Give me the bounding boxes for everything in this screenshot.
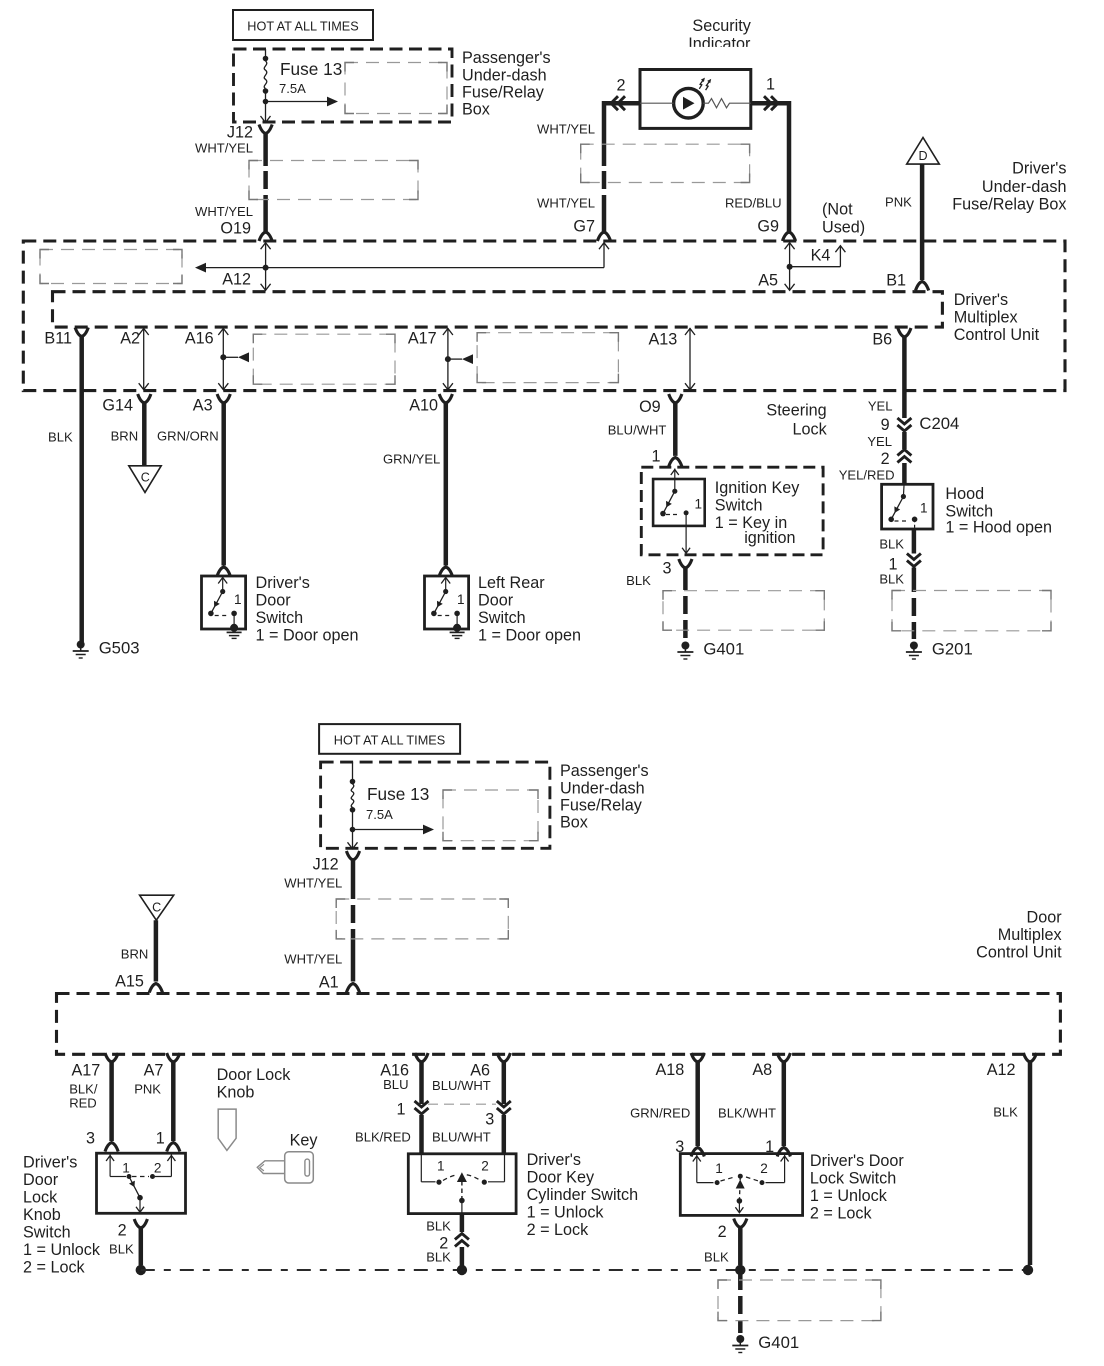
wire BLK/RED to cylinder switch xyxy=(419,1115,424,1155)
svg-text:Control Unit: Control Unit xyxy=(976,944,1062,962)
svg-text:1: 1 xyxy=(457,592,465,607)
svg-text:A10: A10 xyxy=(409,397,438,415)
svg-text:2: 2 xyxy=(118,1222,127,1240)
svg-text:Door Key: Door Key xyxy=(527,1169,595,1187)
svg-text:Under-dash: Under-dash xyxy=(462,67,547,85)
svg-text:Hood: Hood xyxy=(945,485,984,503)
lock switch blade xyxy=(738,1176,741,1201)
indicator LED circle xyxy=(674,88,704,118)
svg-text:Door: Door xyxy=(1027,909,1063,927)
wire PNK A7 to knob switch pin1 xyxy=(171,1062,176,1141)
svg-text:BLK: BLK xyxy=(626,573,651,588)
svg-text:1: 1 xyxy=(715,1161,723,1176)
arrow from fuse to relay (top) xyxy=(266,101,330,103)
svg-text:B6: B6 xyxy=(872,331,892,349)
connector C204 chevrons xyxy=(897,418,911,424)
svg-text:O9: O9 xyxy=(639,398,661,416)
connector C triangle (bottom section) xyxy=(140,895,174,920)
Driver's Under-dash Fuse/Relay Box (outer dashed) xyxy=(23,241,1065,391)
svg-text:A12: A12 xyxy=(222,271,251,289)
svg-text:YEL/RED: YEL/RED xyxy=(839,468,895,483)
svg-text:A2: A2 xyxy=(120,330,140,348)
svg-text:BLU/WHT: BLU/WHT xyxy=(432,1078,491,1093)
svg-text:2: 2 xyxy=(718,1223,727,1241)
svg-text:Control Unit: Control Unit xyxy=(954,326,1040,344)
svg-text:9: 9 xyxy=(881,416,890,434)
svg-text:1: 1 xyxy=(437,1159,445,1174)
svg-text:RED: RED xyxy=(69,1096,97,1111)
svg-text:G401: G401 xyxy=(758,1333,799,1352)
svg-text:BLK/: BLK/ xyxy=(69,1082,98,1097)
Door Multiplex Control Unit box (dashed) xyxy=(57,994,1061,1055)
wire drop below G7 xyxy=(603,243,605,268)
ignition key switch box xyxy=(653,479,705,526)
cylinder switch blade arrow up xyxy=(457,1172,467,1182)
svg-text:A15: A15 xyxy=(115,973,144,991)
svg-text:Box: Box xyxy=(462,101,490,119)
svg-text:A1: A1 xyxy=(319,974,339,992)
svg-text:A16: A16 xyxy=(185,330,214,348)
svg-text:BLK: BLK xyxy=(426,1219,451,1234)
svg-text:Ignition Key: Ignition Key xyxy=(715,479,800,497)
svg-text:Fuse/Relay Box: Fuse/Relay Box xyxy=(952,196,1066,214)
svg-text:BLK/RED: BLK/RED xyxy=(355,1130,411,1145)
svg-text:BLK: BLK xyxy=(879,572,904,587)
wire GRN/RED A18 to lock switch pin3 xyxy=(695,1062,700,1146)
svg-text:1: 1 xyxy=(766,76,775,94)
svg-text:BLK: BLK xyxy=(48,430,73,445)
svg-text:Switch: Switch xyxy=(23,1224,71,1242)
node A12 vertical arrow xyxy=(265,243,267,290)
svg-text:BLK/WHT: BLK/WHT xyxy=(718,1106,776,1121)
svg-text:1: 1 xyxy=(920,501,928,516)
wire BRN C to A15 xyxy=(154,920,159,981)
fuse F13 7.5A (top) xyxy=(265,49,267,59)
ground G503 xyxy=(77,641,85,649)
svg-text:BLK: BLK xyxy=(426,1250,451,1265)
svg-text:Under-dash: Under-dash xyxy=(560,780,645,798)
svg-text:BLK: BLK xyxy=(879,537,904,552)
wire BLU A16 xyxy=(419,1062,424,1104)
gray connector box on bottom G401 wire xyxy=(718,1280,881,1321)
wire YEL B6 to C204 xyxy=(902,337,907,418)
svg-text:Knob: Knob xyxy=(23,1206,61,1224)
svg-text:O19: O19 xyxy=(220,220,251,238)
junction dot A12 to ground bus xyxy=(1023,1265,1033,1275)
LED flash arrows xyxy=(699,80,703,89)
wire BLU/WHT O9 to ignition key switch xyxy=(673,403,678,456)
wire BLK/WHT A8 to lock switch pin1 xyxy=(782,1062,787,1146)
svg-text:G9: G9 xyxy=(757,218,779,236)
svg-text:2: 2 xyxy=(154,1161,162,1176)
svg-text:A18: A18 xyxy=(655,1061,684,1079)
svg-text:1: 1 xyxy=(695,497,703,512)
svg-text:A13: A13 xyxy=(648,331,677,349)
driver's door switch xyxy=(202,576,246,629)
svg-text:A17: A17 xyxy=(408,330,437,348)
svg-text:B1: B1 xyxy=(886,272,906,290)
label box HOT AT ALL TIMES (top) xyxy=(233,10,373,40)
wire BRN G14 to C xyxy=(142,403,147,466)
svg-text:BRN: BRN xyxy=(111,429,139,444)
svg-text:Fuse 13: Fuse 13 xyxy=(367,784,429,804)
svg-text:C: C xyxy=(141,471,150,485)
wire BLK junction to G401 (bottom) xyxy=(738,1274,743,1290)
svg-text:1: 1 xyxy=(396,1101,405,1119)
svg-text:Door: Door xyxy=(23,1171,59,1189)
svg-text:G201: G201 xyxy=(932,640,973,659)
gray sub-box 2 in multiplex area xyxy=(477,333,618,383)
label box HOT AT ALL TIMES (bottom) xyxy=(319,724,460,754)
gray dashed link between cylinder connectors xyxy=(428,1103,496,1105)
ground bus horizontal dashed wire xyxy=(141,1269,1028,1271)
svg-text:Left Rear: Left Rear xyxy=(478,574,545,592)
svg-text:K4: K4 xyxy=(811,247,831,265)
arrow from fuse to relay (bottom) xyxy=(353,829,426,831)
wire BLK A12 to ground bus xyxy=(1028,1062,1033,1265)
svg-text:7.5A: 7.5A xyxy=(279,81,306,96)
svg-text:GRN/YEL: GRN/YEL xyxy=(383,452,440,467)
svg-text:2: 2 xyxy=(760,1161,768,1176)
svg-text:J12: J12 xyxy=(227,124,253,142)
door lock knob icon xyxy=(218,1109,236,1150)
svg-text:WHT/YEL: WHT/YEL xyxy=(537,122,595,137)
svg-text:Under-dash: Under-dash xyxy=(982,178,1067,196)
svg-text:2: 2 xyxy=(881,450,890,468)
svg-text:2 = Lock: 2 = Lock xyxy=(810,1205,873,1223)
svg-text:Switch: Switch xyxy=(256,609,304,627)
svg-text:J12: J12 xyxy=(313,856,339,874)
svg-text:HOT AT ALL TIMES: HOT AT ALL TIMES xyxy=(247,20,358,34)
svg-text:WHT/YEL: WHT/YEL xyxy=(537,196,595,211)
wire YEL/RED to hood switch xyxy=(902,463,907,486)
svg-text:Fuse 13: Fuse 13 xyxy=(280,59,342,79)
wire BLK B11 to G503 xyxy=(79,337,84,643)
fuse F13 7.5A (bottom) xyxy=(352,762,354,781)
svg-text:WHT/YEL: WHT/YEL xyxy=(195,204,253,219)
ground G201 xyxy=(910,642,918,650)
svg-text:Cylinder Switch: Cylinder Switch xyxy=(527,1186,639,1204)
svg-text:WHT/YEL: WHT/YEL xyxy=(284,876,342,891)
svg-text:G503: G503 xyxy=(99,639,140,658)
svg-text:BRN: BRN xyxy=(121,947,149,962)
svg-text:1: 1 xyxy=(651,448,660,466)
junction dot cylinder switch to ground bus xyxy=(457,1265,467,1275)
hood switch box xyxy=(882,484,933,529)
svg-text:1: 1 xyxy=(234,592,242,607)
svg-text:RED/BLU: RED/BLU xyxy=(725,196,782,211)
svg-text:Door Lock: Door Lock xyxy=(217,1066,292,1084)
ground G401 (top) xyxy=(681,642,689,650)
driver's door lock knob switch box xyxy=(97,1153,186,1213)
svg-text:G401: G401 xyxy=(703,640,744,659)
security indicator lamp box xyxy=(640,70,751,129)
svg-text:2 = Lock: 2 = Lock xyxy=(23,1259,86,1277)
svg-text:Driver's: Driver's xyxy=(256,574,310,592)
svg-text:Security: Security xyxy=(692,17,751,35)
connector C triangle (top section) xyxy=(129,466,161,493)
svg-text:1 = Door open: 1 = Door open xyxy=(478,627,581,645)
svg-text:C: C xyxy=(152,901,161,915)
svg-text:1 = Hood open: 1 = Hood open xyxy=(945,519,1052,537)
svg-text:Driver's Door: Driver's Door xyxy=(810,1152,905,1170)
svg-text:Driver's: Driver's xyxy=(527,1151,581,1169)
wire WHT/YEL J12 to A1 xyxy=(351,860,356,899)
svg-text:G14: G14 xyxy=(102,397,133,415)
svg-text:1 = Door open: 1 = Door open xyxy=(256,627,359,645)
driver's door key cylinder switch box xyxy=(408,1154,516,1214)
svg-text:Door: Door xyxy=(256,592,292,610)
svg-text:ignition: ignition xyxy=(744,529,795,547)
svg-text:3: 3 xyxy=(662,560,671,578)
svg-text:B11: B11 xyxy=(44,330,72,348)
node K4 branch xyxy=(789,243,791,290)
svg-text:A12: A12 xyxy=(987,1061,1016,1079)
svg-text:Multiplex: Multiplex xyxy=(998,926,1062,944)
wire RED/BLU from indicator pin1 to G9 xyxy=(751,101,791,106)
svg-text:2: 2 xyxy=(481,1159,489,1174)
svg-text:Fuse/Relay: Fuse/Relay xyxy=(560,797,643,815)
svg-text:Switch: Switch xyxy=(478,609,526,627)
svg-text:Passenger's: Passenger's xyxy=(560,762,649,780)
svg-text:Door: Door xyxy=(478,592,514,610)
svg-text:1: 1 xyxy=(122,1161,130,1176)
svg-text:PNK: PNK xyxy=(134,1082,161,1097)
in-line connector gray box on A1 wire xyxy=(336,899,508,939)
svg-text:PNK: PNK xyxy=(885,195,912,210)
relay sub-connector dashed box (bottom fuse box) xyxy=(443,790,538,841)
svg-text:2: 2 xyxy=(616,77,625,95)
svg-text:BLU/WHT: BLU/WHT xyxy=(608,423,667,438)
svg-text:Switch: Switch xyxy=(715,497,763,515)
svg-text:WHT/YEL: WHT/YEL xyxy=(195,141,253,156)
wire GRN/ORN A3 to driver's door switch xyxy=(221,403,226,566)
svg-text:Lock: Lock xyxy=(792,421,827,439)
in-line connector C (gray box) on J12 wire xyxy=(249,161,418,200)
svg-text:YEL: YEL xyxy=(868,399,893,414)
svg-text:1: 1 xyxy=(156,1130,165,1148)
svg-text:A6: A6 xyxy=(470,1062,490,1080)
gray connector box on G201 wire xyxy=(892,591,1051,631)
svg-text:C204: C204 xyxy=(919,414,959,433)
wire BLK/RED A17 to knob switch pin3 xyxy=(109,1062,114,1141)
Passenger's Under-dash Fuse/Relay Box (bottom, dashed) xyxy=(321,762,550,848)
svg-text:BLK: BLK xyxy=(704,1250,729,1265)
svg-text:BLK: BLK xyxy=(993,1105,1018,1120)
svg-text:GRN/RED: GRN/RED xyxy=(630,1106,690,1121)
svg-text:BLK: BLK xyxy=(109,1242,134,1257)
Steering Lock dashed box xyxy=(641,467,823,555)
knob switch blade xyxy=(129,1177,140,1198)
svg-text:BLU/WHT: BLU/WHT xyxy=(432,1130,491,1145)
svg-text:GRN/ORN: GRN/ORN xyxy=(157,429,219,444)
gray sub-box 1 in multiplex area xyxy=(253,334,395,384)
svg-text:Used): Used) xyxy=(822,219,865,237)
junction dot lock switch to ground bus xyxy=(735,1265,745,1275)
wire GRN/YEL A10 to left rear door switch xyxy=(444,403,449,566)
left rear door switch xyxy=(425,576,469,629)
svg-text:2 = Lock: 2 = Lock xyxy=(527,1221,590,1239)
wire from ignition key switch pin3 xyxy=(685,513,687,552)
svg-text:HOT AT ALL TIMES: HOT AT ALL TIMES xyxy=(334,734,445,748)
wire YEL C204 pin2 xyxy=(902,432,907,449)
key icon xyxy=(285,1152,314,1183)
svg-text:Multiplex: Multiplex xyxy=(954,309,1018,327)
Driver's Multiplex Control Unit box (dashed) xyxy=(53,292,943,327)
svg-text:Steering: Steering xyxy=(766,402,826,420)
svg-text:Fuse/Relay: Fuse/Relay xyxy=(462,84,545,102)
svg-text:1 = Unlock: 1 = Unlock xyxy=(23,1241,101,1259)
svg-text:Driver's: Driver's xyxy=(954,291,1008,309)
svg-text:BLU: BLU xyxy=(383,1077,408,1092)
svg-text:Driver's: Driver's xyxy=(23,1154,77,1172)
relay sub-connector dashed box (top fuse box) xyxy=(345,63,447,114)
driver's door lock switch box xyxy=(680,1154,802,1216)
svg-text:Knob: Knob xyxy=(217,1084,255,1102)
svg-text:1 = Unlock: 1 = Unlock xyxy=(527,1204,605,1222)
svg-text:A8: A8 xyxy=(752,1061,772,1079)
cylinder switch pin2 wire BLK xyxy=(460,1214,465,1233)
ground G401 (bottom) xyxy=(736,1335,744,1343)
svg-text:Key: Key xyxy=(290,1132,319,1150)
resistor zigzag in indicator xyxy=(640,102,674,104)
horizontal wire A12 to G7 with left arrow xyxy=(198,267,604,269)
connector D triangle (from another page) xyxy=(907,138,940,165)
wire BLK hood switch to pin1 xyxy=(912,529,917,554)
svg-text:(Not: (Not xyxy=(822,201,853,219)
gray sub-box top-left in fuse/relay box xyxy=(40,250,182,284)
svg-text:Box: Box xyxy=(560,814,588,832)
svg-text:A17: A17 xyxy=(71,1062,100,1080)
svg-text:D: D xyxy=(918,149,927,163)
svg-text:YEL: YEL xyxy=(867,434,892,449)
svg-text:A7: A7 xyxy=(144,1062,164,1080)
svg-text:G7: G7 xyxy=(573,218,595,236)
svg-text:Lock: Lock xyxy=(23,1189,58,1207)
svg-text:A3: A3 xyxy=(193,397,213,415)
wire BLU/WHT to cylinder switch xyxy=(502,1115,507,1155)
wire BLK to G201 xyxy=(912,568,917,593)
wire WHT/YEL J12 to O19 xyxy=(263,134,268,167)
svg-text:WHT/YEL: WHT/YEL xyxy=(284,952,342,967)
wire PNK from D to B1 xyxy=(920,164,925,280)
in-line connector gray box on G7 wire xyxy=(581,144,750,182)
svg-text:7.5A: 7.5A xyxy=(366,807,393,822)
svg-text:3: 3 xyxy=(86,1130,95,1148)
gray connector box on G401 wire xyxy=(663,591,824,631)
wire WHT/YEL from indicator pin2 to G7 xyxy=(603,101,605,105)
wire BLK to G401 (top) xyxy=(683,568,688,590)
svg-text:1 = Unlock: 1 = Unlock xyxy=(810,1187,888,1205)
junction dot knob switch to ground bus xyxy=(136,1265,146,1275)
svg-text:3: 3 xyxy=(485,1111,494,1129)
wire BLU/WHT A6 xyxy=(502,1062,507,1104)
svg-text:Passenger's: Passenger's xyxy=(462,49,551,67)
svg-text:Driver's: Driver's xyxy=(1012,160,1066,178)
svg-text:Lock Switch: Lock Switch xyxy=(810,1170,896,1188)
svg-text:A5: A5 xyxy=(758,272,778,290)
Passenger's Under-dash Fuse/Relay Box (top, dashed) xyxy=(234,49,453,122)
